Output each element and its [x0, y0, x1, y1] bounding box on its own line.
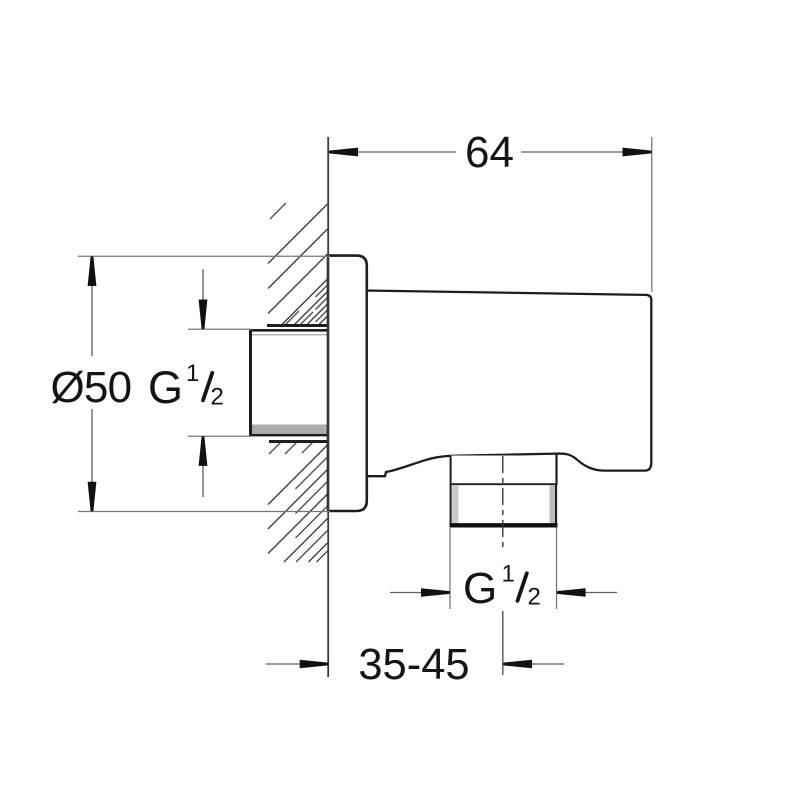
center line of outlet (dash-dot) [502, 456, 504, 547]
dim G1/2 outlet: tails and arrows [390, 592, 426, 594]
svg-text:2: 2 [528, 584, 541, 611]
dim diameter 50: down arrow [88, 482, 97, 512]
dim diameter 50: dimension line [91, 256, 93, 356]
svg-text:1: 1 [502, 561, 515, 588]
svg-text:1: 1 [186, 360, 199, 387]
svg-text:64: 64 [465, 128, 514, 177]
svg-text:35-45: 35-45 [358, 641, 469, 689]
dim G1/2 inlet: lower leader [202, 463, 204, 497]
dim diameter 50: up arrow [88, 257, 97, 287]
outlet pipe with G1/2 thread [450, 454, 558, 527]
wall hole boundary top [267, 324, 328, 327]
dim diameter 50: extension lines [78, 255, 330, 257]
svg-text:G: G [463, 564, 497, 613]
dim G1/2 inlet: extension lines [188, 328, 252, 330]
svg-text:2: 2 [211, 384, 224, 411]
wall hole boundary bottom [269, 440, 328, 443]
escutcheon flange [328, 256, 367, 511]
body of elbow [367, 291, 652, 477]
dim 35-45: tails and arrows [266, 663, 304, 665]
wall hatching [268, 203, 328, 562]
dim 64: left arrow [329, 148, 358, 157]
dim 64: dimension line [342, 151, 456, 153]
outlet thread extension lines [449, 527, 451, 609]
dim 64: right extension line [651, 137, 653, 292]
center line extension for 35-45 [502, 611, 504, 675]
dim G1/2 inlet: upper leader [202, 269, 204, 302]
wall line [327, 137, 329, 677]
svg-text:Ø50: Ø50 [51, 363, 132, 412]
inlet pipe G1/2 (behind wall) [251, 329, 328, 436]
dim 64: right arrow [623, 148, 652, 157]
svg-text:G: G [148, 362, 183, 413]
